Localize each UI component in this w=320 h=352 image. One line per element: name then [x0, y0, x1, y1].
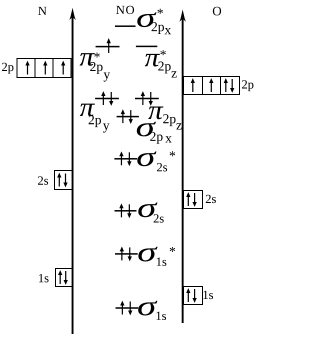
N 1s orbital label	[39, 274, 49, 282]
sigma1s level line	[116, 307, 139, 309]
sigma2px level line	[117, 116, 139, 118]
N energy axis	[69, 8, 76, 334]
sigma*1s level line	[115, 253, 138, 255]
pi2pz label	[148, 107, 181, 130]
O 1s electron pair	[186, 288, 197, 303]
sigma2s label	[138, 202, 163, 222]
O atom label	[213, 7, 221, 16]
sigma*2px level line	[115, 25, 136, 27]
sigma*2px label	[137, 9, 171, 34]
O 2s orbital label	[206, 195, 216, 203]
sigma2s level line	[115, 210, 137, 212]
N 2s electron pair	[57, 173, 68, 188]
N 2s orbital label	[38, 176, 48, 184]
O 1s orbital box	[184, 287, 203, 305]
pi2pz electron pair	[141, 91, 153, 106]
pi*2py single electron	[107, 38, 111, 53]
pi*2py label	[80, 53, 111, 82]
sigma1s label	[138, 301, 166, 320]
N 1s electron pair	[58, 270, 68, 285]
N 2p orbital label	[2, 63, 13, 74]
sigma*2s electron pair	[119, 151, 131, 166]
O 2p electron up 1	[191, 78, 195, 92]
O energy axis	[179, 10, 186, 324]
N 2p electron up 1	[25, 61, 29, 75]
O 2s orbital box	[184, 191, 203, 209]
sigma*1s label	[138, 247, 175, 266]
pi2py level line	[95, 98, 119, 100]
sigma1s electron pair	[120, 301, 132, 316]
N 2p electron up 3	[61, 61, 65, 75]
O 1s orbital label	[203, 291, 213, 299]
N atom label	[38, 7, 46, 15]
sigma*2s label	[137, 151, 175, 171]
sigma*1s electron pair	[120, 247, 132, 262]
pi*2pz label	[145, 50, 177, 77]
O 2s electron pair	[186, 192, 197, 207]
pi2pz level line	[135, 98, 159, 100]
sigma*2s level line	[114, 158, 137, 160]
pi2py label	[80, 104, 110, 133]
N 2s orbital box	[55, 171, 73, 190]
sigma2px label	[137, 122, 172, 144]
NO molecule label	[116, 6, 134, 14]
O 2p orbital box	[184, 77, 240, 95]
pi*2py level line	[96, 46, 120, 48]
pi*2pz level line	[136, 46, 157, 48]
sigma2px electron pair	[121, 109, 133, 124]
O 2p orbital label	[242, 80, 253, 91]
N 2p electron up 2	[43, 61, 47, 75]
N 1s orbital box	[56, 269, 73, 287]
pi2py electron pair	[101, 91, 113, 106]
O 2p electron up 2	[209, 78, 213, 92]
O 2p electron pair 3	[224, 78, 235, 93]
N 2p orbital box	[17, 59, 71, 78]
sigma2s electron pair	[119, 203, 131, 218]
